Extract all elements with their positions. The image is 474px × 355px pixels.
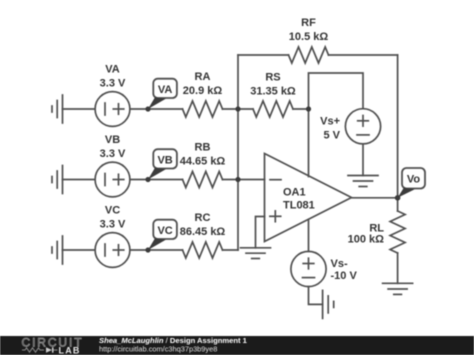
svg-text:-10 V: -10 V xyxy=(331,270,358,282)
ground GND-B (left of VB) xyxy=(52,166,63,194)
svg-text:RC: RC xyxy=(195,212,211,224)
ground GND-VSP (below Vs+) xyxy=(348,176,378,187)
node dot VC xyxy=(145,247,150,252)
svg-text:VB: VB xyxy=(105,134,120,146)
wire ground to VC xyxy=(63,249,96,251)
flag VB pointer xyxy=(148,168,166,180)
svg-text:VB: VB xyxy=(157,155,172,167)
wire node up and over to Vs+ xyxy=(309,73,364,109)
svg-text:3.3 V: 3.3 V xyxy=(100,219,126,231)
wire op-amp non-inverting input to ground xyxy=(256,217,265,248)
svg-text:Vo: Vo xyxy=(407,174,421,186)
node dot VA xyxy=(145,106,150,111)
ground GND-A (left of VA, rotated left-pointing) xyxy=(52,95,63,123)
svg-text:Vs-: Vs- xyxy=(331,258,348,270)
svg-text:VC: VC xyxy=(157,225,172,237)
wire op-amp output xyxy=(352,197,398,199)
wire VB to resistor RB xyxy=(130,179,183,181)
wire op-amp V- pin down to Vs- xyxy=(308,220,310,252)
svg-text:VC: VC xyxy=(105,205,120,217)
wire RS to node xyxy=(293,108,309,110)
flag Vo pointer xyxy=(398,188,415,198)
svg-text:3.3 V: 3.3 V xyxy=(100,78,126,90)
wire RB to bus and op-amp inverting input xyxy=(223,179,265,181)
wire VC to resistor RC xyxy=(130,249,183,251)
junction dot bus row A xyxy=(235,106,240,111)
wire RA to bus xyxy=(223,108,239,110)
resistor RC xyxy=(183,242,223,258)
wire Vs- to ground xyxy=(309,287,323,305)
ground GND-VSN (right of Vs-, rotated right-pointing) xyxy=(323,290,334,318)
flag VC box xyxy=(153,220,177,239)
svg-text:http://circuitlab.com/c3hq37p3: http://circuitlab.com/c3hq37p3b9ye8 xyxy=(99,345,217,354)
wire summing bus vertical xyxy=(237,55,239,250)
junction dot bus row B xyxy=(235,177,240,182)
resistor RB xyxy=(183,172,223,188)
ground GND-IN (below + input) xyxy=(241,248,271,259)
ground GND-C (left of VC) xyxy=(52,236,63,264)
svg-text:44.65 kΩ: 44.65 kΩ xyxy=(180,156,226,168)
node dot VB xyxy=(145,177,150,182)
wire bus to RF xyxy=(238,54,289,56)
resistor RF xyxy=(289,47,329,63)
svg-text:5 V: 5 V xyxy=(323,130,340,142)
svg-text:100 kΩ: 100 kΩ xyxy=(348,234,385,246)
voltage source Vs+ xyxy=(345,109,380,144)
svg-text:RA: RA xyxy=(195,71,211,83)
flag VA box xyxy=(153,79,177,98)
op-amp OA1 triangle xyxy=(265,154,352,242)
voltage source VA xyxy=(95,92,130,127)
op-amp minus symbol xyxy=(270,179,281,181)
flag Vo box xyxy=(402,168,425,189)
svg-text:RS: RS xyxy=(265,72,280,84)
footer bar xyxy=(0,336,474,355)
svg-text:10.5 kΩ: 10.5 kΩ xyxy=(289,31,329,43)
wire ground to VA xyxy=(63,108,96,110)
svg-text:LAB: LAB xyxy=(59,346,81,355)
flag VC pointer xyxy=(148,238,166,250)
svg-text:RF: RF xyxy=(301,17,316,29)
op-amp plus symbol xyxy=(270,211,281,222)
svg-text:RB: RB xyxy=(195,142,211,154)
svg-text:VA: VA xyxy=(158,84,173,96)
flag VA pointer xyxy=(148,97,166,109)
voltage source VB xyxy=(95,162,130,197)
resistor RA xyxy=(183,101,223,117)
wire RF to right vertical xyxy=(329,54,398,56)
svg-text:VA: VA xyxy=(105,64,120,76)
svg-text:31.35 kΩ: 31.35 kΩ xyxy=(250,86,296,98)
wire ground to VB xyxy=(63,179,96,181)
flag VB box xyxy=(153,149,177,168)
svg-text:3.3 V: 3.3 V xyxy=(100,148,126,160)
wire RS lead from bus xyxy=(238,108,253,110)
resistor RL vertical xyxy=(390,198,405,283)
wire Vs+ to ground xyxy=(362,144,364,176)
resistor RS xyxy=(253,101,293,117)
svg-text:86.45 kΩ: 86.45 kΩ xyxy=(180,226,226,238)
svg-text:OA1: OA1 xyxy=(283,187,306,199)
svg-text:20.9 kΩ: 20.9 kΩ xyxy=(183,85,223,97)
node dot output Vo xyxy=(395,195,401,201)
svg-text:TL081: TL081 xyxy=(283,200,315,212)
voltage source Vs- xyxy=(291,251,326,286)
footer logo diode xyxy=(46,347,54,352)
wire RC to bus xyxy=(223,249,239,251)
footer logo wire xyxy=(54,349,58,351)
voltage source VC xyxy=(95,233,130,268)
junction dot RS node xyxy=(306,106,311,111)
svg-text:Vs+: Vs+ xyxy=(320,116,340,128)
footer logo resistor zigzag xyxy=(22,348,44,352)
wire right vertical feedback to output node xyxy=(397,55,399,198)
wire node down to op-amp V+ pin xyxy=(308,109,310,177)
ground GND-RL (below RL) xyxy=(383,283,413,294)
wire VA to resistor RA xyxy=(130,108,183,110)
